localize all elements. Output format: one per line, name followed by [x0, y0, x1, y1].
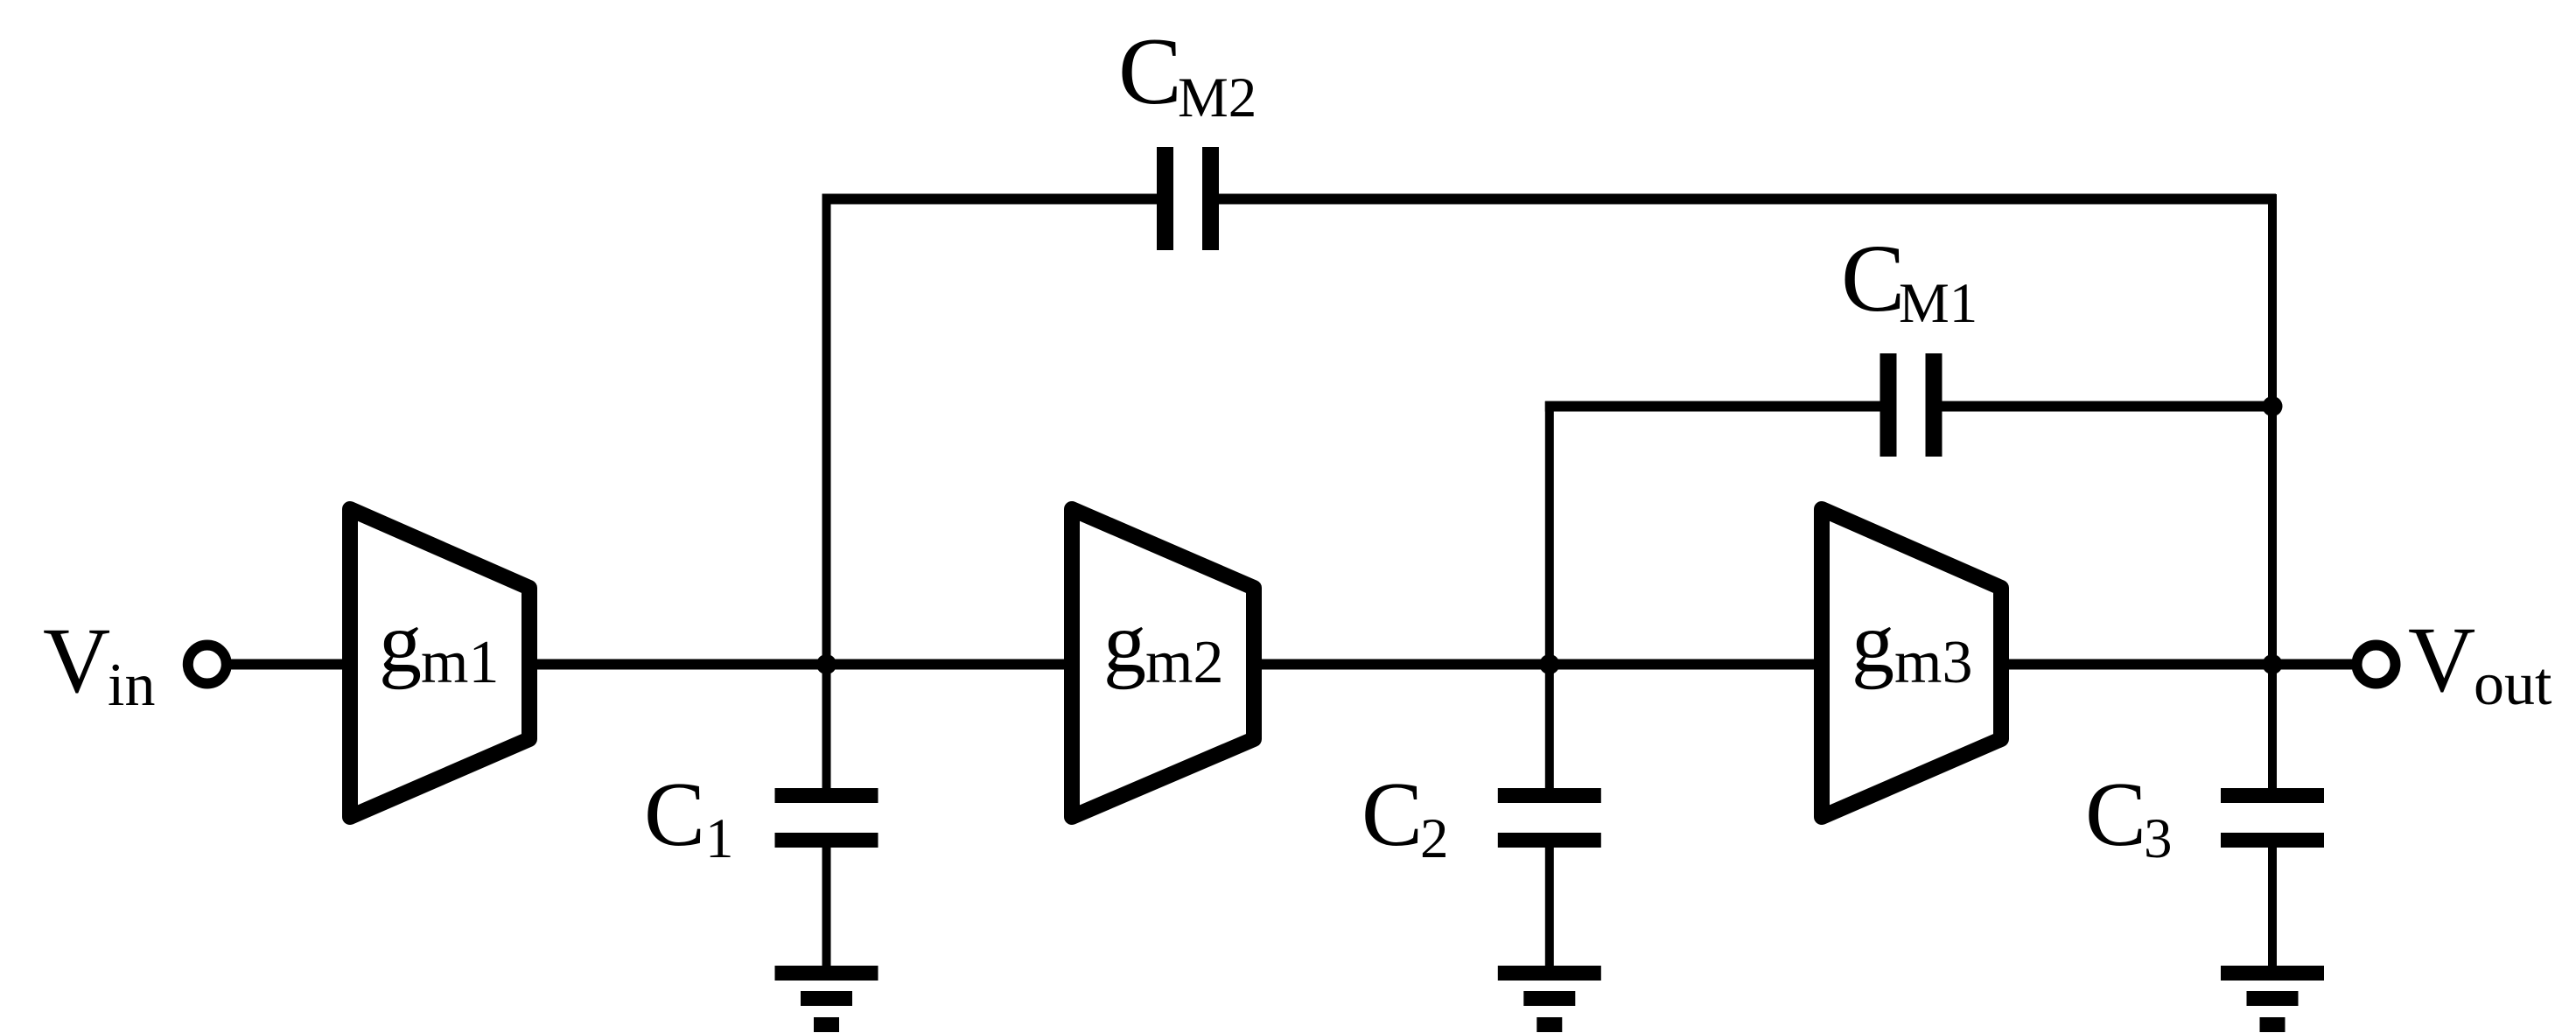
wire gm1 output to gm2 input through node A — [529, 660, 1074, 670]
label CM2 — [1118, 18, 1256, 129]
label gm1 — [379, 596, 499, 696]
svg-text:V: V — [43, 610, 110, 713]
svg-text:m2: m2 — [1145, 629, 1223, 696]
svg-text:C: C — [644, 763, 705, 865]
wire C2 bottom plate to ground — [1545, 846, 1554, 967]
terminal circle Vin — [188, 646, 227, 684]
ground symbol below C2 — [1498, 966, 1601, 1032]
svg-text:m3: m3 — [1894, 629, 1972, 696]
label gm3 — [1851, 596, 1972, 696]
label Vin — [43, 610, 155, 719]
capacitor CM2 plates — [1157, 147, 1219, 250]
svg-text:in: in — [108, 652, 155, 719]
capacitor C3 plates — [2221, 788, 2324, 848]
svg-text:2: 2 — [1420, 807, 1449, 870]
junction dot node B — [1539, 654, 1559, 674]
label gm2 — [1103, 596, 1223, 696]
label CM1 — [1841, 225, 1977, 335]
svg-text:M1: M1 — [1899, 272, 1977, 335]
wire gm3 output to Vout terminal through node C — [2001, 660, 2353, 670]
svg-text:m1: m1 — [421, 629, 499, 696]
wire right vertical from CM2 down through CM1 node and Vout node to C3 — [2268, 194, 2277, 790]
svg-text:C: C — [1841, 225, 1905, 332]
capacitor CM1 plates — [1880, 353, 1942, 457]
op-amp gm3 — [1822, 509, 2001, 817]
ground symbol below C3 — [2221, 966, 2324, 1032]
junction dot node A — [816, 654, 836, 674]
label C3 — [2085, 763, 2173, 870]
op-amp gm2 — [1072, 509, 1254, 817]
svg-text:V: V — [2408, 609, 2475, 712]
svg-text:C: C — [1361, 763, 1423, 865]
label Vout — [2408, 609, 2552, 718]
svg-text:g: g — [379, 596, 422, 690]
terminal circle Vout — [2357, 646, 2396, 684]
ground symbol below C1 — [775, 966, 878, 1032]
svg-text:M2: M2 — [1178, 66, 1256, 129]
wire C3 bottom plate to ground — [2268, 846, 2277, 967]
label C2 — [1361, 763, 1449, 870]
svg-text:g: g — [1103, 596, 1146, 690]
wire CM2 top horizontal right segment — [1210, 194, 2276, 205]
wire CM1 horizontal right segment — [1934, 401, 2276, 412]
svg-text:1: 1 — [705, 807, 734, 870]
wire CM1 horizontal left segment — [1545, 401, 1888, 412]
svg-text:out: out — [2474, 651, 2552, 718]
capacitor C2 plates — [1498, 788, 1601, 848]
wire Vin terminal to gm1 input — [230, 660, 350, 670]
svg-text:C: C — [1118, 18, 1182, 124]
wire C1 bottom plate to ground — [822, 846, 831, 967]
wire node B up to CM1 level — [1545, 401, 1554, 790]
junction dot node C at Vout — [2263, 654, 2283, 674]
capacitor C1 plates — [775, 788, 878, 848]
svg-text:3: 3 — [2144, 807, 2173, 870]
wire gm2 output to gm3 input through node B — [1252, 660, 1823, 670]
wire CM2 top horizontal left segment — [822, 194, 1166, 205]
svg-text:g: g — [1851, 596, 1894, 690]
op-amp gm1 — [350, 509, 529, 817]
label C1 — [644, 763, 734, 870]
junction dot CM1 to Vout branch — [2263, 396, 2283, 416]
svg-text:C: C — [2085, 763, 2146, 865]
wire node A up to CM2 level — [822, 194, 831, 790]
